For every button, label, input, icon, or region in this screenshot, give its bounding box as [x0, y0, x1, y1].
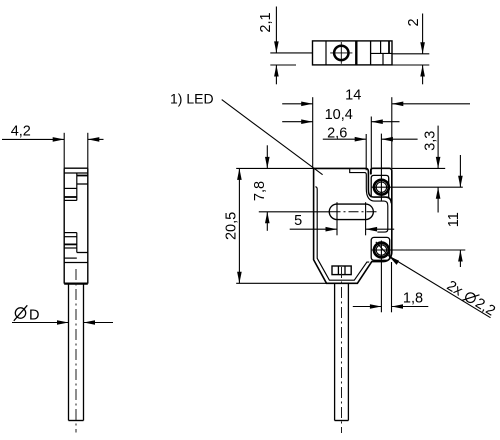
- dimension 3,3 line lower: [437, 187, 439, 212]
- pocket left edge extension line: [370, 117, 372, 175]
- front view cable centerline: [341, 267, 343, 433]
- svg-text:1) LED: 1) LED: [170, 90, 214, 106]
- dimension 2,1 arrow lower: [274, 65, 279, 77]
- dimension 5 arrow right: [366, 227, 378, 232]
- dimension 4,2 line right: [88, 138, 104, 140]
- side view left extension line: [63, 133, 65, 168]
- dimension 2 line upper: [422, 14, 424, 54]
- front view lower hole inner circle: [376, 245, 386, 255]
- top view divider line 2 bold: [355, 41, 357, 65]
- dimension 10,4 line left: [282, 121, 313, 123]
- front view upper hole bold ring: [374, 180, 389, 195]
- side view cable right edge: [83, 284, 85, 421]
- side view body right edge: [87, 168, 89, 283]
- dimension 7,8 arrow lower: [265, 212, 270, 224]
- dimension 1,8 arrow right: [392, 304, 404, 309]
- dimension 11 line lower: [459, 250, 461, 267]
- top view divider line 1: [325, 41, 327, 65]
- svg-text:4,2: 4,2: [11, 123, 31, 139]
- right edge lower extension line: [391, 262, 393, 312]
- dimension 11 arrow upper: [458, 176, 463, 188]
- slot horizontal centerline solid part: [259, 211, 331, 213]
- hole callout label 2x diameter 2,2: [444, 278, 498, 320]
- dimension 4,2 arrow left: [53, 137, 64, 142]
- slot left arc center vertical line: [336, 202, 338, 235]
- side view cable left edge: [68, 284, 70, 421]
- dimension 7,8 arrow upper: [265, 157, 270, 169]
- top view screw boss ring: [334, 46, 348, 60]
- dimension 7,8 line upper: [266, 145, 268, 168]
- hole callout leader line: [389, 256, 491, 318]
- side view top band line: [64, 172, 88, 174]
- front view cable end cap: [335, 420, 349, 422]
- dimension 11 arrow lower: [458, 250, 463, 262]
- dimension 5 line left: [290, 228, 337, 230]
- dimension 20,5 arrow upper: [237, 168, 242, 180]
- dimension 3,3 arrow upper: [436, 157, 441, 169]
- top view right mid extension line: [392, 53, 429, 55]
- dimension 7,8 line lower: [266, 212, 268, 231]
- top view cell divider upper a: [380, 41, 382, 54]
- front view lower mounting boss pocket: [371, 237, 390, 260]
- dimension 2 arrow lower: [420, 65, 425, 77]
- upper hole vertical centerline: [380, 134, 382, 202]
- LED callout leader line: [222, 100, 323, 175]
- side view upper left step line a: [64, 187, 77, 189]
- svg-text:7,8: 7,8: [252, 181, 268, 201]
- dimension 3,3 arrow lower: [436, 187, 441, 199]
- side view lower left step line e: [64, 257, 77, 259]
- front view fixing detail box: [332, 266, 351, 275]
- dimension 14 arrow right: [392, 102, 404, 107]
- svg-text:3,3: 3,3: [423, 131, 439, 151]
- dimension 14 arrow left: [301, 102, 313, 107]
- side view upper left step line b: [64, 196, 77, 198]
- svg-text:14: 14: [345, 87, 361, 103]
- dimension OD arrow left: [57, 320, 69, 325]
- side view lower step vertical: [76, 233, 78, 253]
- dimension OD line right: [84, 322, 114, 324]
- dimension 2,6 line right: [381, 138, 417, 140]
- dimension 2 line lower: [422, 65, 424, 84]
- dimension 14 line left: [282, 103, 313, 105]
- dimension 4,2 arrow right: [88, 137, 100, 142]
- top view right bottom extension line: [392, 64, 429, 66]
- front right edge extension to dims above: [391, 97, 393, 168]
- side view lower left step line c: [64, 243, 77, 245]
- dimension 1,8 line right: [392, 306, 429, 308]
- front view top edge with notch and neck curve: [314, 168, 392, 203]
- dimension 14 line right: [392, 103, 470, 105]
- front view upper mounting boss pocket: [371, 175, 389, 197]
- side view upper step vertical: [76, 173, 78, 200]
- side view lower left step line a: [64, 232, 77, 234]
- side view body top edge: [64, 167, 88, 169]
- top edge left extension line: [236, 167, 313, 169]
- dimension 2,1 line upper: [275, 7, 277, 53]
- front view fixing detail divider 2: [344, 266, 346, 275]
- slot right arc center vertical line: [365, 202, 367, 235]
- top edge right extension line: [392, 167, 445, 169]
- top notch corner extension line: [365, 134, 367, 170]
- top view screw crosshair horizontal: [330, 52, 352, 54]
- svg-text:1,8: 1,8: [403, 290, 423, 306]
- side view cable centerline: [75, 269, 77, 433]
- svg-text:D: D: [29, 307, 39, 323]
- front view upper hole inner circle: [376, 182, 386, 192]
- dimension 5 arrow left: [326, 227, 338, 232]
- top view cell divider upper b: [388, 41, 390, 54]
- front view cable left edge: [334, 283, 336, 420]
- dimension 10,4 arrow right: [371, 119, 383, 124]
- top view screw crosshair vertical: [340, 42, 342, 64]
- side view body left edge: [63, 168, 65, 283]
- side view upper right notch top: [77, 175, 88, 177]
- front view fixing detail divider 1: [337, 266, 339, 275]
- bottom edge left extension line: [236, 282, 326, 284]
- side view body bottom edge: [64, 283, 88, 285]
- dimension diameter D symbol: [14, 305, 27, 321]
- dimension 2,1 line lower: [275, 65, 277, 84]
- side view upper right notch bottom: [77, 183, 88, 185]
- dimension 5 line right: [366, 228, 395, 230]
- dimension OD arrow right: [84, 320, 96, 325]
- slot horizontal centerline dashdot: [331, 211, 379, 213]
- dimension OD line left: [12, 322, 69, 324]
- dimension 1,8 line left: [353, 306, 382, 308]
- svg-text:5: 5: [294, 213, 302, 229]
- front view inner face plate contour top: [350, 169, 388, 233]
- side view cable end cap: [69, 420, 84, 422]
- dimension 4,2 line left: [2, 138, 64, 140]
- dimension 10,4 line right: [371, 121, 399, 123]
- front view lower hole bold ring: [374, 243, 389, 258]
- side view lower right notch line: [77, 252, 88, 254]
- top view left bottom extension line: [270, 64, 296, 66]
- side view lower left step line b: [64, 236, 77, 238]
- svg-text:11: 11: [446, 212, 462, 227]
- dimension 20,5 line: [238, 168, 240, 283]
- dimension 11 line upper: [459, 155, 461, 187]
- top view left mid extension line: [270, 52, 312, 54]
- svg-text:2,1: 2,1: [258, 12, 274, 32]
- svg-text:10,4: 10,4: [325, 107, 353, 123]
- svg-text:2: 2: [406, 18, 422, 26]
- dimension 2,1 arrow upper: [274, 41, 279, 53]
- dimension 3,3 line upper: [437, 126, 439, 169]
- svg-text:20,5: 20,5: [224, 212, 240, 240]
- side view upper left step line c: [64, 199, 77, 201]
- dimension 2,6 arrow right: [381, 137, 393, 142]
- dimension 2,6 line left: [323, 138, 366, 140]
- dimension 2 arrow upper: [420, 42, 425, 54]
- front view inner face plate contour left and bottom: [315, 187, 369, 281]
- hole callout leader arrowhead: [389, 256, 399, 265]
- side view right extension line: [87, 133, 89, 168]
- top view divider line 3: [370, 41, 372, 65]
- dimension 2,6 arrow left: [355, 137, 367, 142]
- upper hole horizontal centerline: [372, 186, 463, 188]
- side view lower band line: [64, 262, 88, 264]
- front view body outline (left edge, bottom, chamfers, ear right edge, ear top): [314, 168, 392, 283]
- front left edge extension to dims above: [312, 97, 314, 168]
- hole callout leader inside circle: [376, 242, 389, 256]
- top view mid parting line: [371, 52, 392, 54]
- side view lower left step line d: [64, 247, 77, 249]
- top view body rectangle: [313, 41, 393, 65]
- dimension 1,8 arrow left: [370, 304, 382, 309]
- front view cable right edge: [347, 283, 349, 420]
- top view cell divider lower: [382, 53, 384, 65]
- svg-text:2,2: 2,2: [472, 295, 498, 319]
- front view slot obround: [329, 204, 373, 220]
- lower hole horizontal centerline: [372, 249, 466, 251]
- dimension 20,5 arrow lower: [237, 272, 242, 284]
- svg-text:2x: 2x: [444, 278, 466, 300]
- dimension 10,4 arrow left: [301, 119, 313, 124]
- lower hole vertical centerline: [380, 241, 382, 313]
